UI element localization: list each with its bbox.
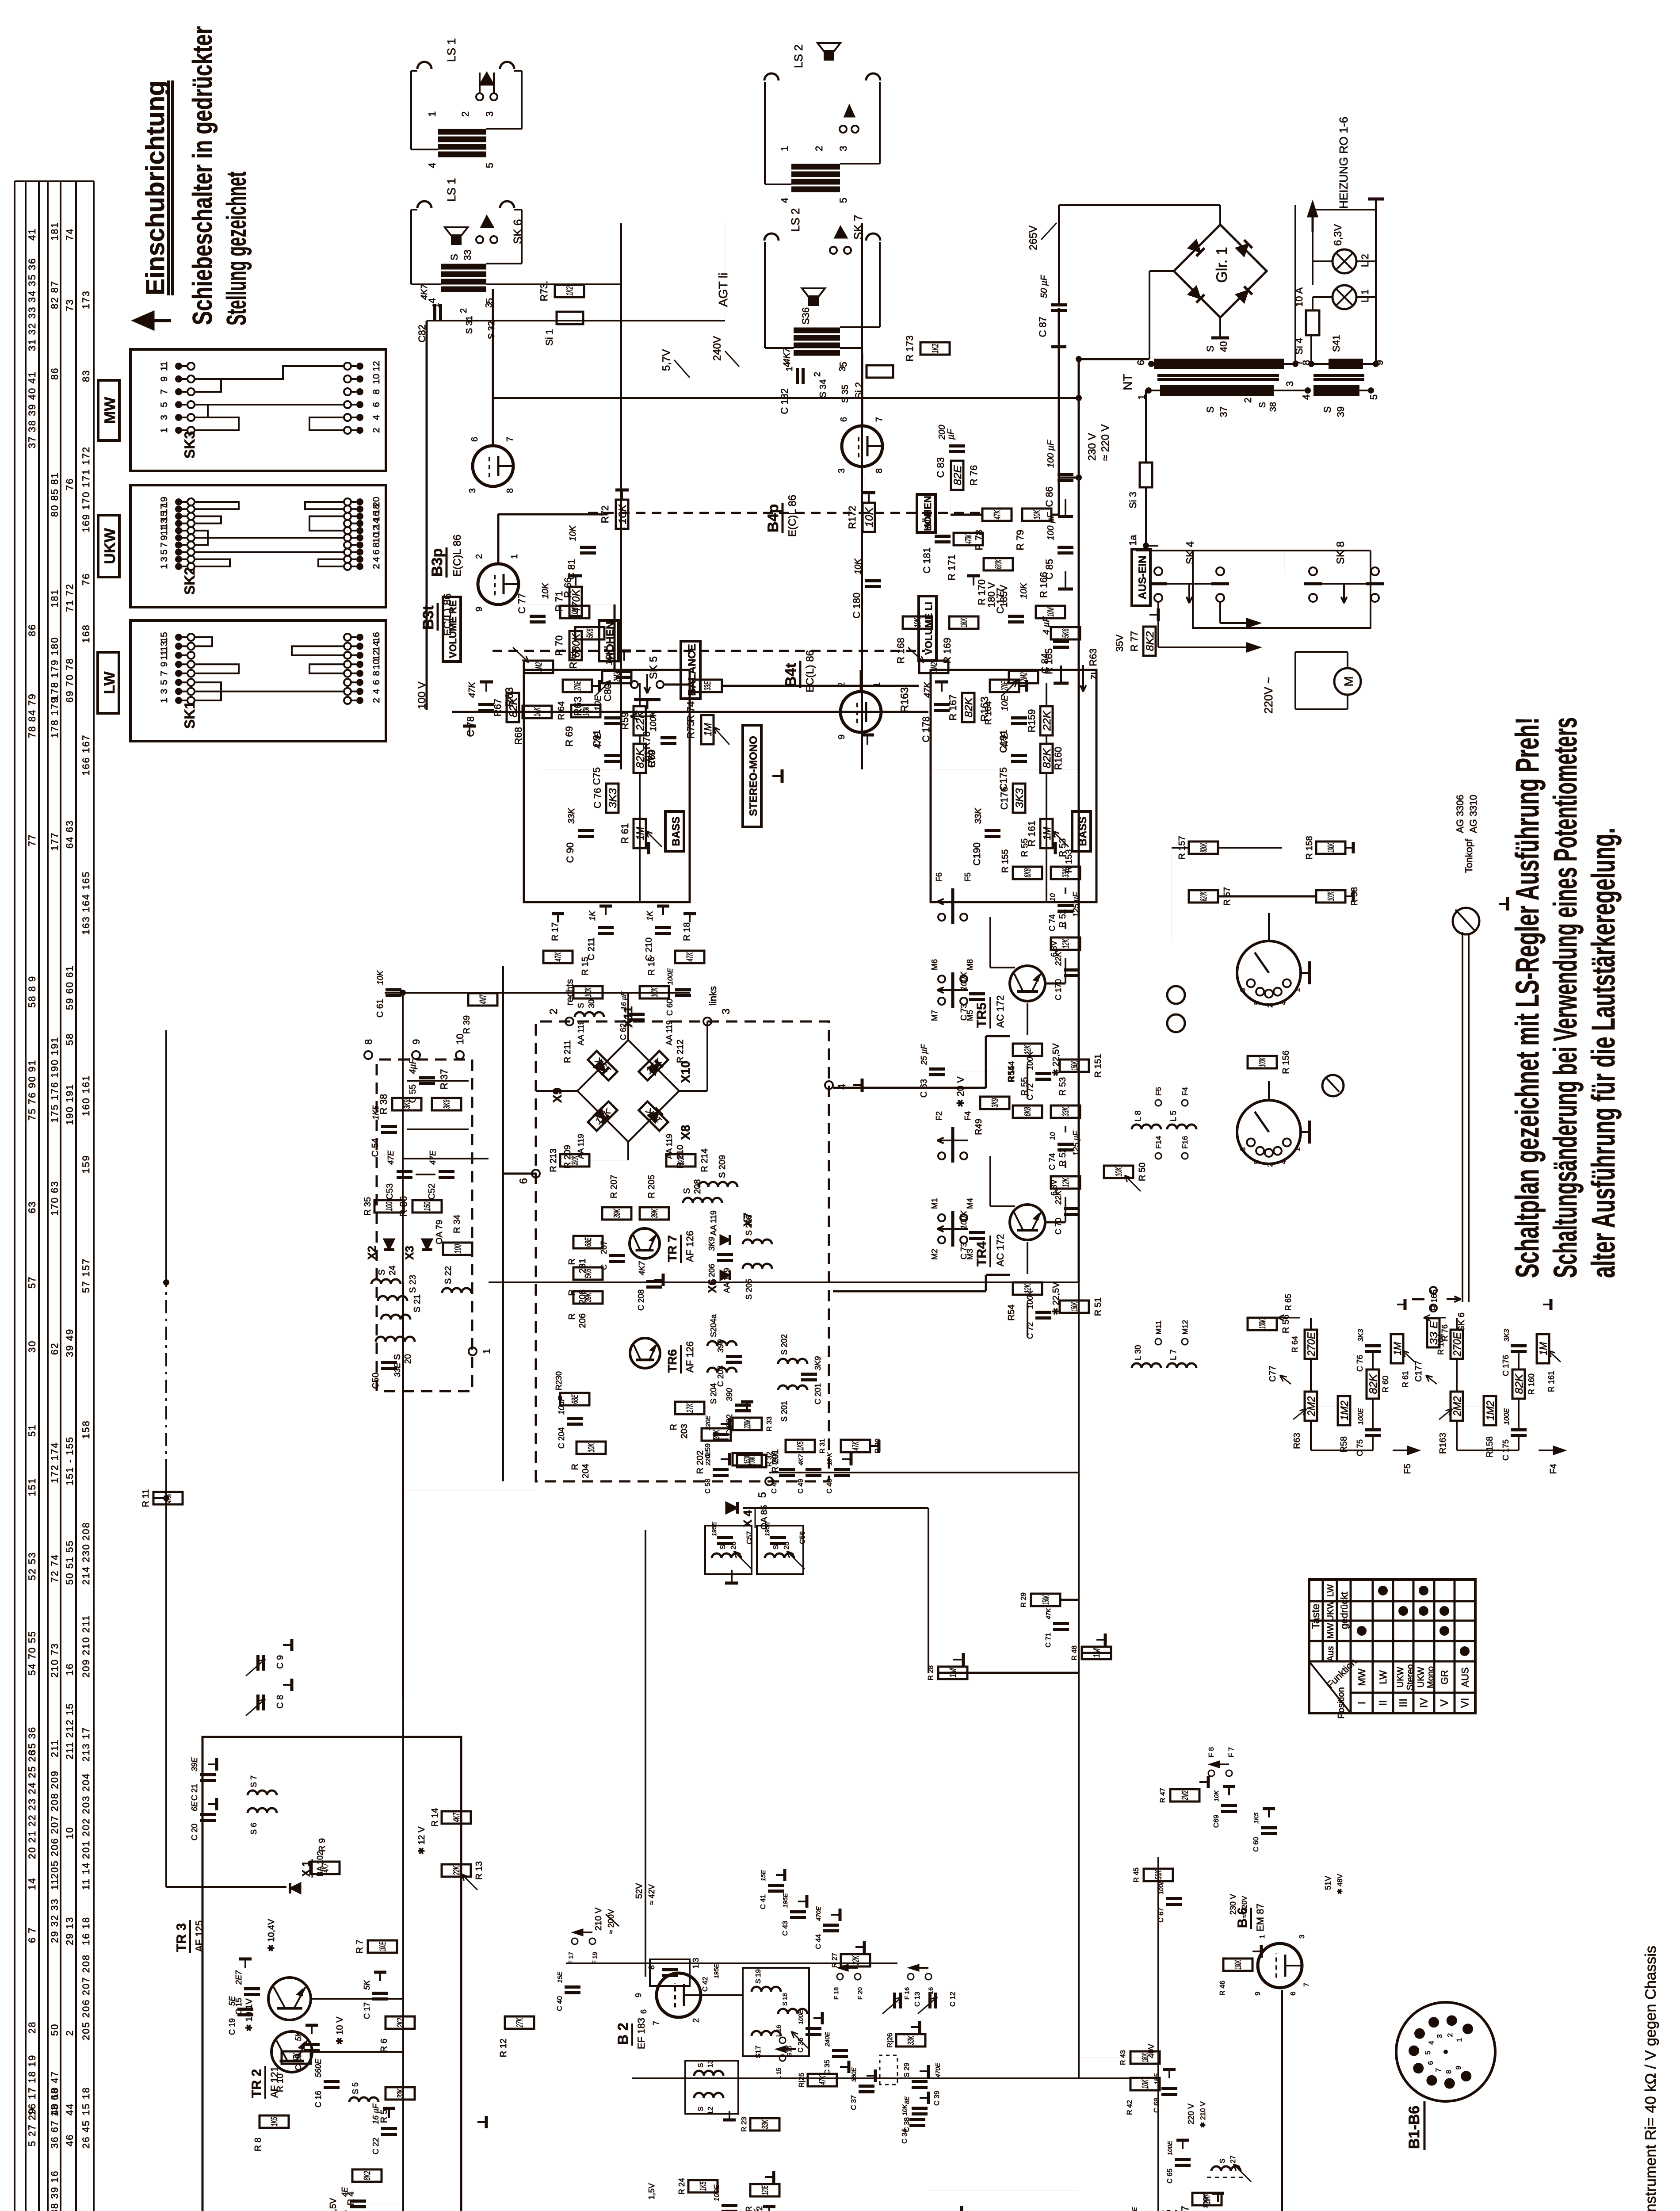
svg-text:205 206 207 208: 205 206 207 208 xyxy=(80,1954,92,2040)
svg-text:R 160: R 160 xyxy=(1527,1373,1536,1395)
svg-text:S: S xyxy=(719,1545,727,1549)
svg-text:10E: 10E xyxy=(1000,695,1010,711)
svg-text:10: 10 xyxy=(371,374,382,384)
svg-text:TR 7: TR 7 xyxy=(665,1235,679,1262)
S29 dashed xyxy=(880,2055,897,2085)
resistor R208 5K6 xyxy=(573,1267,603,1280)
svg-text:8K2: 8K2 xyxy=(363,2171,372,2180)
svg-text:201 202 203 204: 201 202 203 204 xyxy=(80,1773,92,1859)
coil S30 xyxy=(575,1012,604,1017)
svg-text:100K: 100K xyxy=(649,710,658,731)
svg-text:S: S xyxy=(1258,402,1268,408)
label VOLUME LI xyxy=(919,596,936,661)
capacitor C74 125uF xyxy=(1058,910,1073,913)
volume pot R63 2M2 xyxy=(602,671,631,683)
svg-text:50 µF: 50 µF xyxy=(1039,275,1049,298)
tube B6 EM87 xyxy=(1258,1943,1302,1988)
svg-text:2: 2 xyxy=(813,146,825,151)
svg-text:C 210: C 210 xyxy=(644,937,654,961)
svg-text:820K: 820K xyxy=(1199,891,1209,901)
capacitor C34 10K xyxy=(909,2124,925,2127)
svg-text:39 49: 39 49 xyxy=(64,1328,75,1357)
svg-text:R 47: R 47 xyxy=(1159,1788,1167,1803)
svg-text:8K2: 8K2 xyxy=(1144,631,1156,651)
svg-text:C53: C53 xyxy=(385,1183,395,1200)
svg-text:4M7: 4M7 xyxy=(478,995,488,1004)
resistor R170 680K xyxy=(984,558,1013,570)
svg-text:5K6: 5K6 xyxy=(584,1269,593,1278)
NT to switch wires xyxy=(1145,390,1147,463)
label VOLUME RE xyxy=(443,597,461,662)
mains wires xyxy=(1157,602,1159,647)
svg-text:AA 119: AA 119 xyxy=(577,1020,585,1045)
pot R75 1M xyxy=(701,715,714,744)
svg-text:Position: Position xyxy=(1336,1687,1346,1718)
svg-text:R163: R163 xyxy=(979,696,991,722)
svg-text:180K: 180K xyxy=(1141,2053,1150,2062)
svg-text:470E: 470E xyxy=(815,1906,822,1921)
Preh C75 100E xyxy=(1511,1434,1527,1437)
transistor TR6 xyxy=(630,1338,660,1368)
svg-text:20: 20 xyxy=(371,497,382,507)
svg-text:R 154: R 154 xyxy=(1007,1061,1016,1083)
svg-text:3K3: 3K3 xyxy=(607,788,619,808)
svg-text:R|25: R|25 xyxy=(798,2073,806,2088)
svg-text:LS 1: LS 1 xyxy=(445,178,458,202)
svg-text:10 K: 10 K xyxy=(826,1453,833,1465)
svg-text:VOLUME RE: VOLUME RE xyxy=(447,601,458,658)
resistor R171 470K xyxy=(954,533,983,545)
svg-text:R 61: R 61 xyxy=(619,823,630,844)
AUS-EIN label xyxy=(1132,549,1150,606)
signal bus Y912 xyxy=(402,1052,404,1698)
svg-text:F 19: F 19 xyxy=(591,1952,598,1964)
svg-text:R 76: R 76 xyxy=(968,465,979,486)
svg-text:1M: 1M xyxy=(1392,1342,1404,1355)
svg-text:S: S xyxy=(697,2107,705,2112)
svg-text:R 61: R 61 xyxy=(1401,1371,1410,1388)
svg-text:16: 16 xyxy=(371,632,382,642)
wire B4p plate xyxy=(861,353,863,426)
svg-text:µF: µF xyxy=(946,428,956,440)
svg-text:R 202: R 202 xyxy=(695,1450,705,1474)
svg-text:B3t: B3t xyxy=(420,605,437,630)
svg-text:S204a: S204a xyxy=(709,1314,718,1337)
coil S5 xyxy=(349,2097,378,2102)
resistor R48 1M xyxy=(1082,1647,1111,1659)
svg-text:C75: C75 xyxy=(591,767,602,785)
svg-text:M2: M2 xyxy=(930,1249,939,1260)
Preh pot R63 2M2 xyxy=(1305,1392,1317,1421)
svg-text:C 12: C 12 xyxy=(949,1992,957,2007)
svg-text:2: 2 xyxy=(548,1009,560,1014)
svg-text:4 µF: 4 µF xyxy=(1042,616,1051,635)
svg-text:M12: M12 xyxy=(1181,1320,1189,1335)
svg-text:I: I xyxy=(1356,1702,1368,1705)
resistor R173 1K2 xyxy=(920,342,950,355)
capacitor C191 10E xyxy=(1011,722,1027,725)
svg-text:390K: 390K xyxy=(676,1155,686,1165)
svg-text:F6: F6 xyxy=(935,872,943,882)
svg-text:82E: 82E xyxy=(952,465,964,485)
svg-text:S 23: S 23 xyxy=(408,1275,418,1293)
svg-text:X2: X2 xyxy=(365,1246,378,1260)
capacitor C63 25uF xyxy=(929,1073,945,1076)
svg-text:C77: C77 xyxy=(1268,1366,1278,1382)
svg-text:7: 7 xyxy=(505,437,515,442)
switch contact upper RE xyxy=(476,93,483,100)
svg-text:125 µF: 125 µF xyxy=(1072,892,1081,917)
svg-text:SK1: SK1 xyxy=(182,701,198,729)
capacitor C58 220E xyxy=(713,1474,729,1477)
svg-text:5: 5 xyxy=(484,163,495,168)
bridge rectifier Glr.1 xyxy=(1174,225,1267,317)
label HOEHEN RE xyxy=(599,620,619,661)
trimmer C12 xyxy=(928,1993,932,2008)
resistor R52 12K xyxy=(1051,1176,1080,1189)
svg-text:C190: C190 xyxy=(971,842,982,866)
svg-text:270E: 270E xyxy=(1451,1332,1463,1357)
svg-text:C177: C177 xyxy=(1414,1361,1424,1382)
svg-text:195E: 195E xyxy=(713,1964,720,1978)
capacitor C206 3K9 xyxy=(717,1259,733,1262)
svg-text:22K: 22K xyxy=(1041,710,1053,731)
bus 240V rail xyxy=(493,397,1079,399)
svg-text:C 182: C 182 xyxy=(779,388,790,414)
capacitor C73 100K xyxy=(969,998,985,1001)
svg-text:7: 7 xyxy=(1303,1983,1310,1987)
svg-text:R60: R60 xyxy=(646,750,657,767)
svg-text:SK 5: SK 5 xyxy=(648,656,660,679)
svg-text:Stellung gezeichnet: Stellung gezeichnet xyxy=(221,172,252,325)
svg-text:B 2: B 2 xyxy=(615,2023,631,2045)
capacitor C73 100K xyxy=(969,1237,985,1240)
svg-text:✱ 20 V: ✱ 20 V xyxy=(955,1076,966,1107)
svg-text:8: 8 xyxy=(647,1965,656,1970)
svg-text:206: 206 xyxy=(578,1313,588,1328)
svg-text:8: 8 xyxy=(505,488,515,493)
svg-text:V: V xyxy=(1439,1699,1451,1706)
detector cans S25 S26 xyxy=(705,1526,752,1574)
coils S201 S202 + C201 xyxy=(778,1385,807,1390)
svg-text:33K: 33K xyxy=(1061,1107,1071,1117)
resistor R35 100 xyxy=(374,1200,404,1213)
svg-text:C 76: C 76 xyxy=(1355,1355,1364,1372)
resistor R172 10K xyxy=(863,503,875,532)
label BALANCE xyxy=(681,641,700,699)
svg-text:R 77: R 77 xyxy=(1129,631,1140,651)
tube B4t xyxy=(840,692,881,732)
svg-text:MW: MW xyxy=(1326,1623,1336,1639)
svg-text:390: 390 xyxy=(716,1339,725,1353)
Preh pot R163 2M2 xyxy=(1451,1392,1463,1421)
wiring table band xyxy=(14,181,15,2211)
svg-text:C 86: C 86 xyxy=(1044,486,1055,507)
svg-text:6: 6 xyxy=(371,402,382,407)
chokes L5 L8 xyxy=(1132,1125,1161,1129)
svg-text:C 35: C 35 xyxy=(824,2060,831,2075)
svg-text:1K5: 1K5 xyxy=(796,1441,806,1451)
svg-text:7: 7 xyxy=(159,671,169,676)
svg-text:10: 10 xyxy=(454,1034,466,1044)
svg-text:3: 3 xyxy=(1284,381,1295,386)
capacitor C76/176 3K3 xyxy=(606,784,619,813)
switch detail SK2 xyxy=(130,485,386,607)
coils S204 S204a xyxy=(707,1368,737,1373)
capacitor C72 100K xyxy=(1035,1078,1051,1081)
svg-text:15 18: 15 18 xyxy=(80,2087,92,2115)
svg-text:6: 6 xyxy=(371,680,382,685)
svg-text:37: 37 xyxy=(1218,406,1229,417)
svg-text:C 77: C 77 xyxy=(516,593,527,614)
svg-text:9: 9 xyxy=(634,1993,643,1997)
svg-text:2: 2 xyxy=(1447,2033,1454,2037)
wire C63 to R49 xyxy=(946,1071,995,1072)
svg-text:Taste: Taste xyxy=(1310,1604,1322,1629)
svg-text:230 V: 230 V xyxy=(1229,1894,1237,1915)
resistor R214 390K xyxy=(666,1154,695,1167)
resistor R24 1K5 xyxy=(688,2180,718,2192)
svg-text:S 7: S 7 xyxy=(249,1775,258,1787)
pot R61/161 1M xyxy=(1040,819,1053,848)
svg-text:6: 6 xyxy=(371,550,382,555)
svg-text:BASS: BASS xyxy=(670,817,682,846)
resistor R16 100K xyxy=(640,986,669,998)
svg-text:LS 1: LS 1 xyxy=(445,38,458,62)
svg-text:C 181: C 181 xyxy=(921,547,932,574)
svg-text:560E: 560E xyxy=(314,2058,323,2077)
resistor R49 3K9 xyxy=(980,1097,1009,1109)
bus wires audio to supply xyxy=(620,223,622,769)
svg-text:C 176: C 176 xyxy=(1501,1355,1510,1376)
svg-text:173: 173 xyxy=(80,290,92,309)
svg-text:10K: 10K xyxy=(1114,1167,1124,1177)
svg-text:2: 2 xyxy=(474,554,484,559)
svg-text:NT: NT xyxy=(1121,374,1134,390)
resistor R39 4M7 xyxy=(468,993,497,1006)
fuse Si 2 xyxy=(867,365,893,378)
capacitor C90/190 33K xyxy=(578,835,594,838)
svg-text:3: 3 xyxy=(159,689,169,694)
svg-text:Schiebeschalter in gedrückter: Schiebeschalter in gedrückter xyxy=(187,26,218,325)
decoder box B top pin line xyxy=(503,1173,536,1175)
svg-text:R: R xyxy=(570,1464,580,1470)
svg-text:C 40: C 40 xyxy=(556,1996,564,2011)
capacitor C180 10K xyxy=(865,585,881,588)
svg-text:R 205: R 205 xyxy=(647,1175,657,1198)
wire AM bus xyxy=(928,2190,1079,2191)
svg-text:S: S xyxy=(1219,2158,1226,2163)
svg-text:47K: 47K xyxy=(818,2075,828,2085)
svg-text:C 60: C 60 xyxy=(665,999,674,1016)
svg-text:100E: 100E xyxy=(1166,2141,1173,2155)
main HT bus xyxy=(489,1282,1079,1283)
long wire IF output xyxy=(566,1962,897,1964)
resistor R55 6K8 xyxy=(1013,867,1042,879)
capacitor C14 4E xyxy=(350,2205,366,2208)
svg-text:10: 10 xyxy=(1049,893,1057,901)
resistor R18 47K xyxy=(675,951,704,963)
svg-text:R172: R172 xyxy=(847,506,858,529)
quad resistors 15K xyxy=(588,1051,617,1080)
svg-text:59 60 61: 59 60 61 xyxy=(64,965,75,1010)
resistor R33 220K xyxy=(733,1418,762,1430)
resistor R53 33K xyxy=(1051,867,1080,879)
svg-text:82K: 82K xyxy=(1041,748,1053,768)
ganged control dashed line HOEHEN xyxy=(588,512,986,514)
svg-text:R73.: R73. xyxy=(538,281,550,301)
capacitor C203 390 xyxy=(726,1361,742,1364)
capacitor C48 10K xyxy=(834,1474,850,1477)
resistor R156 100K xyxy=(1248,1056,1277,1068)
volume feed line xyxy=(452,711,928,713)
svg-text:64 63: 64 63 xyxy=(64,820,75,849)
svg-text:80 85 81: 80 85 81 xyxy=(49,472,60,517)
resistor R158 100K xyxy=(1316,842,1345,854)
pot R13 22K xyxy=(442,1864,471,1877)
svg-text:6: 6 xyxy=(518,1178,530,1184)
resistor R52 12K xyxy=(1051,937,1080,950)
svg-text:R 33: R 33 xyxy=(766,1416,773,1431)
svg-text:S: S xyxy=(577,1003,585,1008)
svg-text:57 157: 57 157 xyxy=(80,1258,92,1293)
svg-text:AF 126: AF 126 xyxy=(684,1341,695,1373)
R11 feed line xyxy=(165,1473,167,1887)
svg-text:C 68: C 68 xyxy=(1153,2098,1161,2113)
svg-text:R 64: R 64 xyxy=(1291,1336,1299,1353)
svg-text:180K: 180K xyxy=(959,618,969,627)
pot R50 10K xyxy=(1104,1166,1133,1178)
tube B3p xyxy=(473,446,513,486)
svg-text:C 65: C 65 xyxy=(1166,2169,1174,2184)
contacts F18 F20 F16 xyxy=(837,1974,843,1980)
svg-text:R 45: R 45 xyxy=(1133,1867,1140,1882)
contact M group xyxy=(938,1236,945,1243)
svg-text:C 42: C 42 xyxy=(702,1977,709,1992)
resistor R71 470K xyxy=(569,587,582,616)
svg-text:S: S xyxy=(1205,406,1216,413)
svg-text:R 213: R 213 xyxy=(549,1148,558,1172)
bridge ground xyxy=(1219,317,1221,338)
svg-text:1K5: 1K5 xyxy=(1252,1813,1260,1824)
capacitor C80 10K xyxy=(616,676,632,679)
resistor R47 2M2 xyxy=(1170,1789,1199,1802)
contacts F17 F19 xyxy=(572,1938,578,1944)
svg-text:C 85: C 85 xyxy=(1044,559,1055,579)
contacts F7 F8 xyxy=(1208,1770,1214,1776)
wires RE main group xyxy=(411,283,441,285)
resistor R73 1K2 xyxy=(555,285,584,297)
capacitor C35 240E xyxy=(832,2055,848,2058)
svg-text:680K: 680K xyxy=(994,559,1004,569)
svg-text:20: 20 xyxy=(403,1354,413,1364)
capacitor C38 8E xyxy=(912,2112,928,2115)
svg-text:HEIZUNG RO 1-6: HEIZUNG RO 1-6 xyxy=(1337,117,1350,209)
svg-text:1: 1 xyxy=(159,428,169,433)
resistor R76 82E xyxy=(951,461,963,490)
svg-text:R 23: R 23 xyxy=(741,2117,748,2132)
volume pot R163 2M2 xyxy=(919,661,948,673)
capacitor C82 4K7 xyxy=(433,304,436,320)
wires tone box xyxy=(639,773,641,902)
svg-text:3: 3 xyxy=(1436,2034,1443,2038)
svg-text:STEREO-MONO: STEREO-MONO xyxy=(748,736,760,816)
diode X2 OA79 xyxy=(384,1239,394,1250)
svg-text:C 21: C 21 xyxy=(190,1784,199,1801)
wire B4t plate xyxy=(860,670,862,692)
svg-text:LS 2: LS 2 xyxy=(789,208,802,232)
capacitor C40 15E xyxy=(565,1991,580,1994)
svg-text:16 µF: 16 µF xyxy=(371,2104,380,2124)
wire tuner to IF xyxy=(312,2051,403,2053)
svg-text:X 1: X 1 xyxy=(300,1861,312,1877)
svg-text:195E: 195E xyxy=(710,1522,718,1536)
svg-text:UKW: UKW xyxy=(102,528,118,564)
resistor R58 100K xyxy=(1316,890,1345,903)
svg-text:C 208: C 208 xyxy=(637,1289,645,1311)
svg-text:25 µF: 25 µF xyxy=(920,1044,928,1065)
svg-text:C 47: C 47 xyxy=(771,1479,778,1494)
svg-text:160 161: 160 161 xyxy=(80,1075,92,1116)
svg-text:10K: 10K xyxy=(901,2104,908,2115)
svg-text:UKW: UKW xyxy=(1396,1667,1405,1688)
capacitor C178 47K xyxy=(934,709,950,712)
svg-text:10K: 10K xyxy=(1141,2079,1150,2089)
resistor R45 56K xyxy=(1144,1869,1173,1881)
svg-text:380E: 380E xyxy=(850,2067,857,2082)
svg-text:R|26: R|26 xyxy=(886,2033,894,2048)
output group RE main terminals xyxy=(417,201,431,208)
svg-text:24: 24 xyxy=(388,1266,397,1275)
svg-text:F14: F14 xyxy=(1154,1136,1163,1149)
svg-text:R 14: R 14 xyxy=(430,1808,440,1827)
svg-text:9: 9 xyxy=(1455,2066,1462,2069)
capacitor C78 47K xyxy=(478,709,494,712)
chokes L15 L16 xyxy=(779,2055,786,2061)
svg-text:1: 1 xyxy=(1294,988,1301,992)
fuse Si1 xyxy=(557,312,583,324)
svg-text:R 31: R 31 xyxy=(819,1438,826,1454)
resistor R29 150K xyxy=(1031,1594,1060,1606)
svg-text:C 36: C 36 xyxy=(797,2038,805,2053)
svg-text:150K: 150K xyxy=(1041,1595,1051,1605)
svg-text:46: 46 xyxy=(64,2134,75,2146)
svg-text:C 60: C 60 xyxy=(1252,1837,1260,1852)
svg-text:C 17: C 17 xyxy=(363,2002,371,2019)
capacitor C37 380E xyxy=(859,2090,874,2093)
svg-text:R 55: R 55 xyxy=(1020,838,1030,857)
speaker icon LI xyxy=(808,296,819,306)
svg-text:C 204: C 204 xyxy=(557,1427,566,1449)
svg-text:S: S xyxy=(393,1354,402,1360)
HT bus extension xyxy=(1078,1282,1080,2078)
svg-text:82K: 82K xyxy=(1513,1373,1525,1394)
svg-text:2: 2 xyxy=(1242,398,1253,403)
svg-text:13 12 37 38 39 16: 13 12 37 38 39 16 xyxy=(49,2170,60,2211)
capacitor C61 10K xyxy=(386,994,401,997)
svg-text:10K: 10K xyxy=(1032,510,1042,520)
svg-text:R 66: R 66 xyxy=(562,578,573,598)
svg-text:33E: 33E xyxy=(393,1362,402,1377)
svg-text:151 - 155: 151 - 155 xyxy=(64,1436,75,1485)
svg-text:8E: 8E xyxy=(903,2096,910,2104)
svg-text:10K: 10K xyxy=(568,525,578,541)
svg-text:5: 5 xyxy=(1368,394,1379,400)
smoothing capacitor C87 50uF xyxy=(1051,309,1067,312)
svg-text:169 170 171 172: 169 170 171 172 xyxy=(80,446,92,532)
svg-text:2M2: 2M2 xyxy=(1306,1396,1317,1417)
svg-text:4µF: 4µF xyxy=(408,1058,418,1074)
